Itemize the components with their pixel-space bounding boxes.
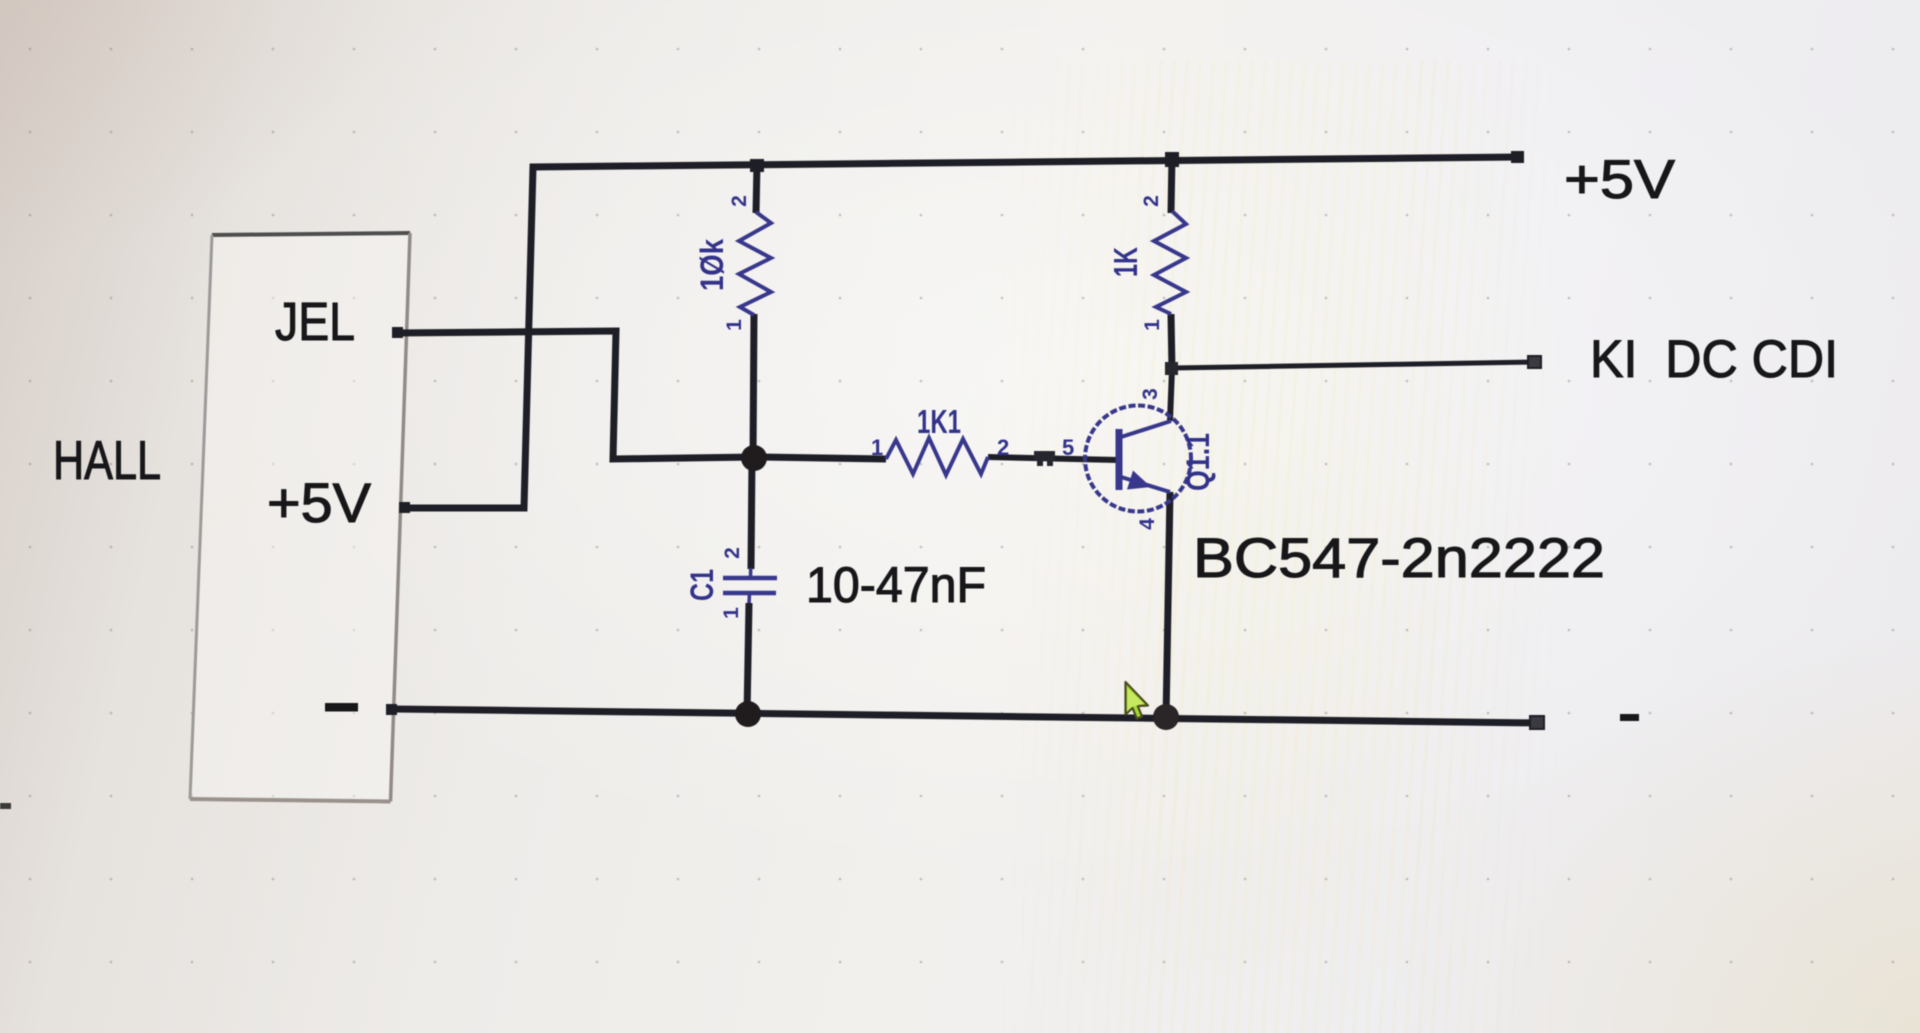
wire 10k top stub	[756, 163, 757, 213]
svg-text:1K1: 1K1	[917, 403, 961, 440]
Q1 emitter diagonal	[1121, 477, 1170, 492]
wire capacitor C1 bottom to minus rail	[747, 593, 751, 604]
svg-text:1: 1	[871, 435, 883, 460]
svg-text:HALL: HALL	[53, 429, 161, 491]
minus dash in box	[325, 703, 358, 712]
svg-text:C1: C1	[684, 569, 720, 601]
mouse cursor	[1126, 682, 1149, 719]
wire bottom rail (minus net)	[394, 709, 1540, 723]
pin stub minus	[386, 704, 397, 715]
pin stub +5V	[399, 502, 410, 513]
Q1 base bar	[1116, 429, 1123, 490]
svg-text:5: 5	[1062, 435, 1074, 460]
transistor Q1	[1085, 406, 1191, 512]
junction square KI node	[1165, 362, 1178, 375]
junction cap 10k/top rail	[750, 159, 764, 172]
wire KI DC CDI net	[1172, 362, 1536, 368]
junction dot emitter/minus rail	[1153, 704, 1179, 730]
resistor R2 1K	[1154, 211, 1186, 314]
Q1 collector diagonal	[1121, 421, 1171, 437]
svg-text:2: 2	[1140, 195, 1163, 207]
svg-text:2: 2	[721, 547, 744, 559]
wire 10k bottom to node A	[753, 314, 754, 459]
junction cap 1K/top rail	[1165, 152, 1179, 167]
svg-text:2: 2	[728, 195, 751, 207]
svg-text:+5V: +5V	[267, 471, 372, 534]
node A junction dot	[741, 445, 767, 471]
svg-text:3: 3	[1139, 388, 1162, 400]
minus dash right	[1620, 714, 1639, 721]
svg-text:10-47nF: 10-47nF	[806, 557, 986, 613]
wire KI node to Q1 collector	[1170, 369, 1172, 421]
wire 1K bottom to KI node	[1171, 314, 1172, 370]
wire node A to capacitor C1 top	[751, 457, 752, 569]
svg-text:4: 4	[1136, 518, 1159, 530]
end cap KI wire	[1528, 356, 1541, 368]
wire JEL pin to node A	[394, 331, 756, 459]
wire 1K top stub	[1171, 156, 1172, 213]
end cap minus rail	[1530, 716, 1544, 729]
wire 1K1 to Q1 base	[988, 457, 1118, 460]
end cap +5V rail	[1511, 151, 1524, 163]
svg-text:1: 1	[720, 607, 743, 619]
svg-text:+5V: +5V	[1564, 148, 1675, 210]
resistor R3 1K1 (base)	[886, 438, 988, 475]
pin stub JEL	[392, 327, 403, 338]
wire node A to 1K1	[756, 457, 886, 459]
Q1 emitter arrow	[1127, 471, 1151, 490]
resistor R1 10k	[739, 212, 771, 315]
svg-text:2: 2	[997, 435, 1009, 460]
wire Q1 emitter to minus rail	[1166, 492, 1170, 719]
capacitor C1	[723, 576, 777, 581]
junction dot C1/minus rail	[735, 701, 761, 727]
svg-text:BC547-2n2222: BC547-2n2222	[1193, 526, 1605, 589]
svg-text:1Øk: 1Øk	[694, 239, 730, 291]
svg-text:KI DC CDI: KI DC CDI	[1590, 330, 1838, 389]
svg-text:1: 1	[723, 319, 746, 331]
connector HALL (box)	[190, 233, 410, 802]
bus entry connector on base wire	[1034, 451, 1055, 461]
wire +5V pin to top rail and +5V net	[402, 157, 1520, 508]
svg-text:1K: 1K	[1107, 247, 1144, 277]
svg-text:JEL: JEL	[275, 292, 355, 352]
svg-text:1: 1	[1141, 319, 1164, 331]
svg-text:Q1.1: Q1.1	[1180, 433, 1216, 491]
